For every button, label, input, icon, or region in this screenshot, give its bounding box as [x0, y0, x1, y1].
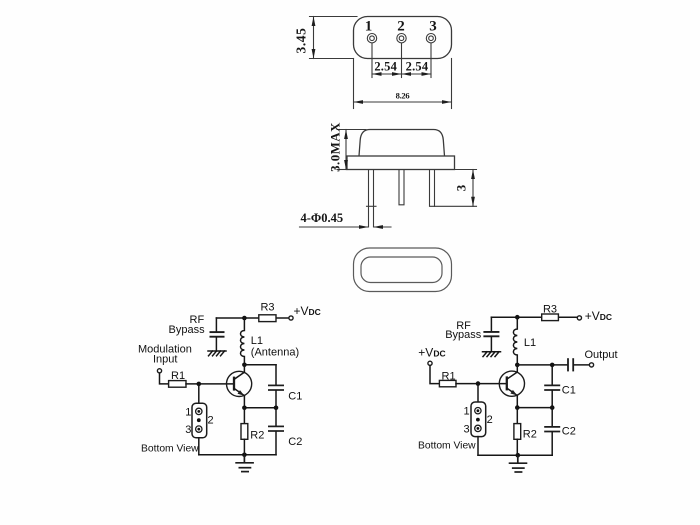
capacitor output coupling [568, 358, 589, 371]
svg-text:1: 1 [185, 406, 191, 418]
svg-text:Input: Input [153, 354, 177, 366]
wire collector lead (right) [516, 365, 518, 372]
chassis ground (left RF bypass) [208, 351, 226, 356]
wire input to R1 [160, 373, 169, 384]
overall width arrows [354, 100, 364, 104]
wire resonator to bottom rail (right) [477, 437, 479, 456]
dimension 2.54 arrows [372, 72, 382, 76]
node ground junction (left) [242, 453, 247, 458]
dimension 3 arrows [471, 170, 475, 180]
wire bottom rail (right) [478, 454, 552, 456]
resistor R2 (right) [514, 408, 521, 456]
wire resonator to bottom rail (left) [198, 438, 200, 455]
pin diameter leader line right [374, 226, 392, 228]
wire collector lead (left) [243, 365, 245, 372]
resistor R3 (right) [542, 314, 559, 321]
terminal +Vdc (right circuit top) [577, 316, 581, 320]
ground symbol (left) [235, 455, 254, 472]
capacitor RF bypass (right) [483, 317, 499, 352]
svg-text:4-Φ0.45: 4-Φ0.45 [301, 211, 344, 225]
wire collector to C1 (left) [244, 364, 276, 366]
pin 3 extension line [430, 43, 432, 77]
resistor R3 (left) [259, 315, 276, 322]
wire junction to resonator (right) [477, 384, 479, 402]
node ground junction (right) [516, 453, 521, 458]
inductor L1 (right) [513, 317, 517, 365]
node collector junction (left) [242, 363, 247, 368]
pin 1 extension line [371, 43, 373, 77]
svg-text:8.26: 8.26 [396, 91, 410, 101]
package bottom view outer outline [354, 248, 452, 292]
node output junction (right) [550, 363, 555, 368]
resistor R1 (left) [169, 381, 186, 388]
wire emitter node (right) [517, 407, 552, 409]
svg-text:R3: R3 [260, 301, 274, 313]
dimension 2.54 line [372, 73, 431, 75]
svg-text:C1: C1 [562, 385, 576, 397]
svg-text:L1: L1 [524, 337, 536, 349]
capacitor C1 (left) [268, 365, 284, 408]
terminal +Vdc (left circuit) [289, 316, 293, 320]
node emitter junction (right) [515, 405, 520, 410]
wire bottom rail (left) [199, 454, 276, 456]
wire base (left) [186, 383, 233, 385]
package bottom view inner outline [361, 257, 442, 283]
pin diameter arrow right [374, 225, 384, 229]
pin 2 (top view pad) [397, 34, 406, 43]
svg-text:2.54: 2.54 [406, 60, 429, 74]
wire emitter node (left) [244, 407, 276, 409]
transistor Q1 (right) [499, 371, 524, 396]
dimension 3.0MAX line [345, 130, 347, 170]
ground symbol (right) [509, 455, 528, 472]
pin 2 (side view) [399, 170, 404, 205]
capacitor C2 (left) [268, 408, 284, 455]
wire base (right) [456, 383, 506, 385]
dimension 3.0MAX arrows [344, 130, 348, 140]
terminal +Vdc (right circuit left) [428, 361, 432, 365]
wire emitter lead (left) [243, 396, 245, 408]
resistor R1 (right) [439, 380, 456, 386]
resistor R2 (left) [241, 408, 248, 455]
pin 3 (side view) [430, 170, 435, 207]
svg-text:Bypass: Bypass [445, 329, 482, 341]
terminal output [589, 363, 593, 367]
terminal modulation input [157, 369, 161, 373]
svg-text:Bottom View: Bottom View [141, 444, 199, 455]
svg-text:Bottom View: Bottom View [418, 441, 476, 452]
svg-text:3: 3 [185, 424, 191, 436]
svg-text:2: 2 [397, 19, 405, 35]
node base junction (left) [197, 382, 202, 387]
svg-text:Bypass: Bypass [169, 324, 206, 336]
svg-text:3: 3 [454, 184, 469, 191]
svg-text:1: 1 [463, 406, 469, 418]
svg-text:3: 3 [463, 423, 469, 435]
svg-text:2: 2 [487, 414, 493, 426]
package outline top view [354, 17, 452, 59]
node rail junction (left) [242, 316, 247, 321]
pin 2 extension line [401, 43, 403, 77]
svg-text:C1: C1 [288, 391, 302, 403]
dimension 3.45 extension lines [310, 16, 358, 18]
dimension 3 line [472, 170, 474, 207]
wire +Vdc to R1 (right) [430, 365, 439, 383]
svg-text:R1: R1 [171, 370, 185, 382]
inductor L1 (left, antenna) [241, 318, 245, 365]
svg-text:1: 1 [365, 19, 373, 35]
package flange (side view) [347, 156, 455, 170]
node emitter junction (left) [242, 406, 247, 411]
svg-text:3: 3 [429, 19, 437, 35]
wire top rail right circuit [491, 316, 541, 318]
svg-text:R2: R2 [250, 429, 264, 441]
node C1-C2 junction (right) [550, 405, 555, 410]
wire top rail left circuit [216, 317, 258, 319]
svg-text:2.54: 2.54 [374, 60, 397, 74]
overall width extension lines [353, 59, 355, 109]
svg-text:L1: L1 [251, 335, 263, 347]
svg-text:R1: R1 [442, 370, 456, 382]
pin diameter leader line left [300, 226, 369, 228]
dimension 3 extension lines [455, 169, 477, 171]
SAW resonator (left, bottom view) [192, 403, 207, 438]
svg-text:R2: R2 [523, 429, 537, 441]
svg-text:+VDC: +VDC [294, 304, 321, 318]
svg-text:R3: R3 [543, 304, 557, 316]
dimension 3.0MAX extension line [337, 129, 366, 131]
svg-text:Output: Output [585, 349, 618, 361]
overall width dimension line [354, 101, 452, 103]
node collector junction (right) [515, 363, 520, 368]
svg-text:+VDC: +VDC [418, 346, 445, 360]
wire junction to resonator (left) [198, 384, 200, 403]
node C1-C2 junction (left) [274, 406, 279, 411]
capacitor C1 (right) [544, 365, 560, 408]
pin 1 (top view pad) [367, 34, 376, 43]
svg-text:(Antenna): (Antenna) [251, 346, 299, 358]
SAW resonator (right, bottom view) [471, 402, 486, 437]
pin 1 (side view, long) [369, 170, 374, 227]
svg-text:3.45: 3.45 [294, 27, 309, 53]
transistor Q1 (left) [227, 371, 252, 396]
svg-text:C2: C2 [288, 436, 302, 448]
wire collector to C1 and output (right) [517, 364, 567, 366]
svg-text:+VDC: +VDC [585, 309, 612, 323]
chassis ground (right RF bypass) [483, 352, 501, 357]
pin bottom extension tick [367, 205, 377, 207]
svg-text:2: 2 [208, 415, 214, 427]
node rail junction (right) [515, 315, 520, 320]
svg-text:C2: C2 [562, 426, 576, 438]
node base junction (right) [476, 381, 481, 386]
capacitor C2 (right) [544, 408, 560, 456]
dimension 3.45 arrows [312, 17, 316, 27]
svg-text:3.0MAX: 3.0MAX [328, 122, 343, 172]
dimension 3.45 line [313, 17, 315, 59]
wire emitter lead (right) [516, 396, 518, 408]
capacitor RF bypass (left) [210, 318, 225, 351]
pin diameter arrow left [359, 225, 369, 229]
package cap (side view dome) [359, 130, 445, 157]
pin 3 (top view pad) [426, 34, 435, 43]
